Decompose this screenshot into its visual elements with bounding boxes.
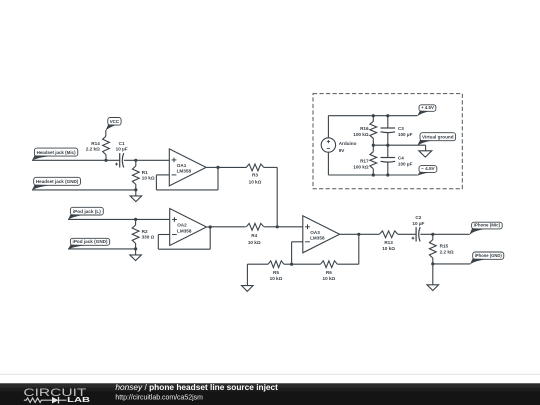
node mid rail R16: [372, 144, 375, 147]
label R13 value: [382, 246, 395, 251]
svg-text:R15: R15: [440, 243, 449, 248]
wire gnd stem R15: [432, 264, 434, 285]
svg-text:330 Ω: 330 Ω: [142, 235, 155, 240]
label R14: [91, 141, 100, 146]
svg-text:Arduino: Arduino: [339, 141, 357, 146]
node mid rail C3: [386, 144, 389, 147]
wire R5 gnd down: [246, 264, 248, 285]
wire VCC to R14: [105, 130, 107, 136]
svg-text:10 kΩ: 10 kΩ: [270, 276, 283, 281]
wire OA2 out to R4: [210, 226, 246, 228]
label R15 value: [440, 250, 454, 255]
wire C4 bottom stub: [387, 162, 389, 175]
svg-text:2.2 kΩ: 2.2 kΩ: [440, 250, 454, 255]
wire R5 to junction: [284, 263, 292, 265]
svg-text:Headset jack (Mic): Headset jack (Mic): [37, 150, 76, 156]
svg-text:R4: R4: [251, 233, 257, 238]
node summing junction: [276, 225, 279, 228]
node R1 top junction: [134, 159, 137, 162]
wire R16 top stub: [372, 116, 374, 122]
svg-text:VCC: VCC: [110, 119, 120, 125]
label C1: [119, 141, 125, 146]
label C4 value: [398, 162, 413, 167]
ground under R2: [130, 255, 142, 261]
node R14/mic junction: [104, 159, 107, 162]
svg-text:10 kΩ: 10 kΩ: [248, 240, 261, 245]
label R14 value: [86, 147, 100, 152]
flag -4.5V: [417, 166, 437, 176]
label R5: [273, 270, 279, 275]
wire OA1 out to R3: [218, 166, 246, 168]
resistor R15: [429, 240, 436, 258]
svg-text:OA3: OA3: [310, 230, 320, 235]
CircuitLab logo: [23, 387, 90, 404]
flag iPhone (GND): [470, 252, 504, 265]
svg-text:10 kΩ: 10 kΩ: [323, 276, 336, 281]
svg-text:R5: R5: [273, 270, 279, 275]
label R5 value: [270, 276, 283, 281]
svg-text:10 µF: 10 µF: [116, 147, 128, 152]
footer bar: [0, 374, 540, 405]
svg-text:honsey / phone headset line so: honsey / phone headset line source injec…: [115, 383, 278, 392]
resistor R14: [103, 136, 110, 154]
wire junction to R6: [292, 263, 321, 265]
svg-text:9V: 9V: [339, 148, 346, 153]
svg-text:100 µF: 100 µF: [398, 162, 413, 167]
ground under R15: [427, 285, 439, 291]
svg-text:LAB: LAB: [67, 395, 90, 404]
node R15 bottom junction: [431, 262, 434, 265]
flag Headset jack (Mic): [32, 148, 78, 161]
wire R2 bottom: [135, 243, 137, 249]
resistor R17: [370, 152, 377, 169]
svg-text:100 µF: 100 µF: [398, 132, 413, 137]
wire OA1 feedback right: [217, 167, 219, 190]
label R2 value: [142, 235, 155, 240]
wire OA1 feedback bottom: [156, 189, 218, 191]
resistor R16: [370, 121, 377, 138]
svg-text:− 4.5V: − 4.5V: [421, 166, 435, 172]
op-amp OA2: [170, 209, 207, 246]
label R17: [360, 158, 369, 163]
wire gnd stem 2: [135, 249, 137, 255]
wire source top: [327, 116, 329, 138]
wire mid rail: [373, 144, 425, 146]
voltage source Arduino 9V: [321, 138, 335, 152]
svg-text:iPod jack (GND): iPod jack (GND): [73, 239, 108, 245]
label C4: [398, 156, 404, 161]
wire R14 bottom: [105, 155, 107, 161]
svg-text:100 kΩ: 100 kΩ: [353, 164, 369, 169]
label Arduino: [339, 141, 357, 146]
label C1 value: [116, 147, 128, 152]
svg-text:+ 4.5V: + 4.5V: [421, 105, 435, 111]
wire OA2 feedback right: [209, 227, 211, 249]
wire C3 top stub: [387, 116, 389, 128]
wire R1 top: [135, 160, 137, 166]
svg-text:R16: R16: [360, 126, 369, 131]
svg-text:R6: R6: [326, 270, 332, 275]
wire OA3 out to R13: [359, 233, 380, 235]
wire bottom rail: [328, 174, 417, 176]
label C3 value: [398, 132, 413, 137]
wire OA3 inv down: [291, 242, 293, 264]
label R17 value: [353, 164, 369, 169]
op-amp OA3: [303, 216, 340, 253]
wire OA2 feedback left: [157, 235, 159, 250]
svg-text:C1: C1: [119, 141, 125, 146]
svg-text:2.2 kΩ: 2.2 kΩ: [86, 147, 100, 152]
wire R13 right: [398, 233, 416, 235]
node R5/R6 junction: [290, 263, 293, 266]
capacitor C1: [115, 153, 124, 167]
wire headset gnd net: [32, 189, 136, 191]
svg-text:R3: R3: [252, 173, 258, 178]
node OA2 output junction: [209, 225, 212, 228]
resistor R2: [132, 225, 139, 243]
wire top rail: [328, 115, 417, 117]
label R4 value: [248, 240, 261, 245]
wire OA3 inv stub: [292, 241, 303, 243]
op-amp OA1: [169, 149, 206, 186]
svg-text:LM358: LM358: [177, 169, 192, 174]
label R3 value: [249, 179, 262, 184]
label C3: [398, 126, 404, 131]
ground under R1: [130, 196, 142, 202]
flag iPhone (Mic): [469, 222, 502, 235]
svg-text:iPod jack (L): iPod jack (L): [73, 209, 101, 215]
wire R2 top: [135, 219, 137, 225]
node OA3 output junction: [357, 233, 360, 236]
label R1 value: [142, 176, 155, 181]
svg-text:LM358: LM358: [177, 228, 192, 233]
wire C2 right: [420, 233, 469, 235]
label R16 value: [353, 132, 369, 137]
wire OA2 feedback bottom: [158, 248, 210, 250]
svg-text:R14: R14: [91, 141, 100, 146]
svg-text:R2: R2: [142, 229, 148, 234]
wire feedback up: [358, 234, 360, 264]
resistor R1: [132, 166, 139, 184]
wire R15 top: [432, 234, 434, 239]
svg-text:R17: R17: [360, 158, 369, 163]
wire C4 top stub: [387, 145, 389, 157]
wire iphone gnd net: [433, 263, 470, 265]
flag VCC: [105, 118, 121, 132]
wire OA3 output: [340, 233, 359, 235]
wire R4 right: [264, 226, 303, 228]
wire mic net left: [32, 159, 120, 161]
wire OA1 output: [206, 166, 218, 168]
label C2: [415, 215, 421, 220]
label R13: [384, 240, 393, 245]
footer title text: [115, 383, 278, 401]
flag Virtual ground: [417, 133, 455, 146]
label C2 value: [412, 221, 424, 226]
node top rail R16: [372, 114, 375, 117]
svg-text:http://circuitlab.com/ca52jsm: http://circuitlab.com/ca52jsm: [115, 393, 202, 402]
wire OA2 inv stub: [158, 234, 169, 236]
label R2: [142, 229, 148, 234]
capacitor C3: [381, 128, 396, 133]
flag +4.5V: [417, 105, 436, 117]
label R6 value: [323, 276, 336, 281]
wire OA1 inv stub: [156, 174, 169, 176]
virtual ground symbol: [419, 145, 432, 157]
wire gnd to R5: [247, 263, 268, 265]
flag Headset jack (GND): [32, 177, 81, 190]
svg-text:Headset jack (GND): Headset jack (GND): [36, 179, 79, 185]
svg-text:10 kΩ: 10 kΩ: [142, 176, 155, 181]
svg-text:OA1: OA1: [177, 163, 187, 168]
svg-text:C4: C4: [398, 156, 404, 161]
capacitor C4: [381, 158, 396, 163]
dashed box Arduino supply: [313, 94, 462, 189]
node top rail C3: [386, 114, 389, 117]
label R3: [252, 173, 258, 178]
wire R6 right: [337, 263, 359, 265]
node R2 top junction: [134, 218, 137, 221]
ground at R5: [242, 286, 254, 292]
node headset gnd junction: [134, 188, 137, 191]
wire mic net right: [124, 159, 169, 161]
node ipod gnd junction: [134, 247, 137, 250]
wire ipod L net: [68, 218, 170, 220]
svg-text:Virtual ground: Virtual ground: [422, 135, 454, 141]
node bottom rail C4: [386, 173, 389, 176]
svg-text:10 kΩ: 10 kΩ: [249, 179, 262, 184]
wire R17 top stub: [372, 145, 374, 151]
svg-text:C3: C3: [398, 126, 404, 131]
wire R1 bottom: [135, 184, 137, 190]
wire C3 bottom stub: [387, 132, 389, 145]
svg-text:iPhone (Mic): iPhone (Mic): [474, 223, 501, 229]
resistor R3: [246, 164, 264, 171]
node R15 top junction: [431, 233, 434, 236]
wire R3 down: [276, 167, 278, 226]
resistor R5: [268, 261, 284, 268]
flag iPod jack (L): [68, 207, 104, 220]
label 9V: [339, 148, 346, 153]
capacitor C2: [412, 227, 421, 241]
node OA1 output junction: [216, 166, 219, 169]
wire R3 right: [264, 166, 278, 168]
svg-text:R1: R1: [142, 170, 148, 175]
resistor R4: [246, 223, 264, 230]
wire gnd stem 1: [135, 190, 137, 196]
node bottom rail R17: [372, 173, 375, 176]
svg-text:LM358: LM358: [310, 236, 325, 241]
label R15: [440, 243, 449, 248]
svg-text:iPhone (GND): iPhone (GND): [475, 253, 502, 259]
svg-text:10 kΩ: 10 kΩ: [382, 246, 395, 251]
wire R16 bottom stub: [372, 138, 374, 145]
svg-text:10 µF: 10 µF: [412, 221, 424, 226]
wire ipod gnd net: [68, 248, 136, 250]
svg-text:100 kΩ: 100 kΩ: [353, 132, 369, 137]
wire R17 bottom stub: [372, 169, 374, 175]
label R16: [360, 126, 369, 131]
svg-text:OA2: OA2: [177, 223, 187, 228]
svg-text:C2: C2: [415, 215, 421, 220]
label R6: [326, 270, 332, 275]
flag iPod jack (GND): [68, 238, 110, 249]
resistor R13: [379, 231, 397, 238]
resistor R6: [321, 261, 338, 268]
label R1: [142, 170, 148, 175]
svg-text:R13: R13: [384, 240, 393, 245]
wire R15 bottom: [432, 258, 434, 264]
wire OA1 feedback left: [155, 175, 157, 190]
wire OA2 output: [207, 226, 211, 228]
wire source bottom: [327, 153, 329, 175]
label R4: [251, 233, 257, 238]
